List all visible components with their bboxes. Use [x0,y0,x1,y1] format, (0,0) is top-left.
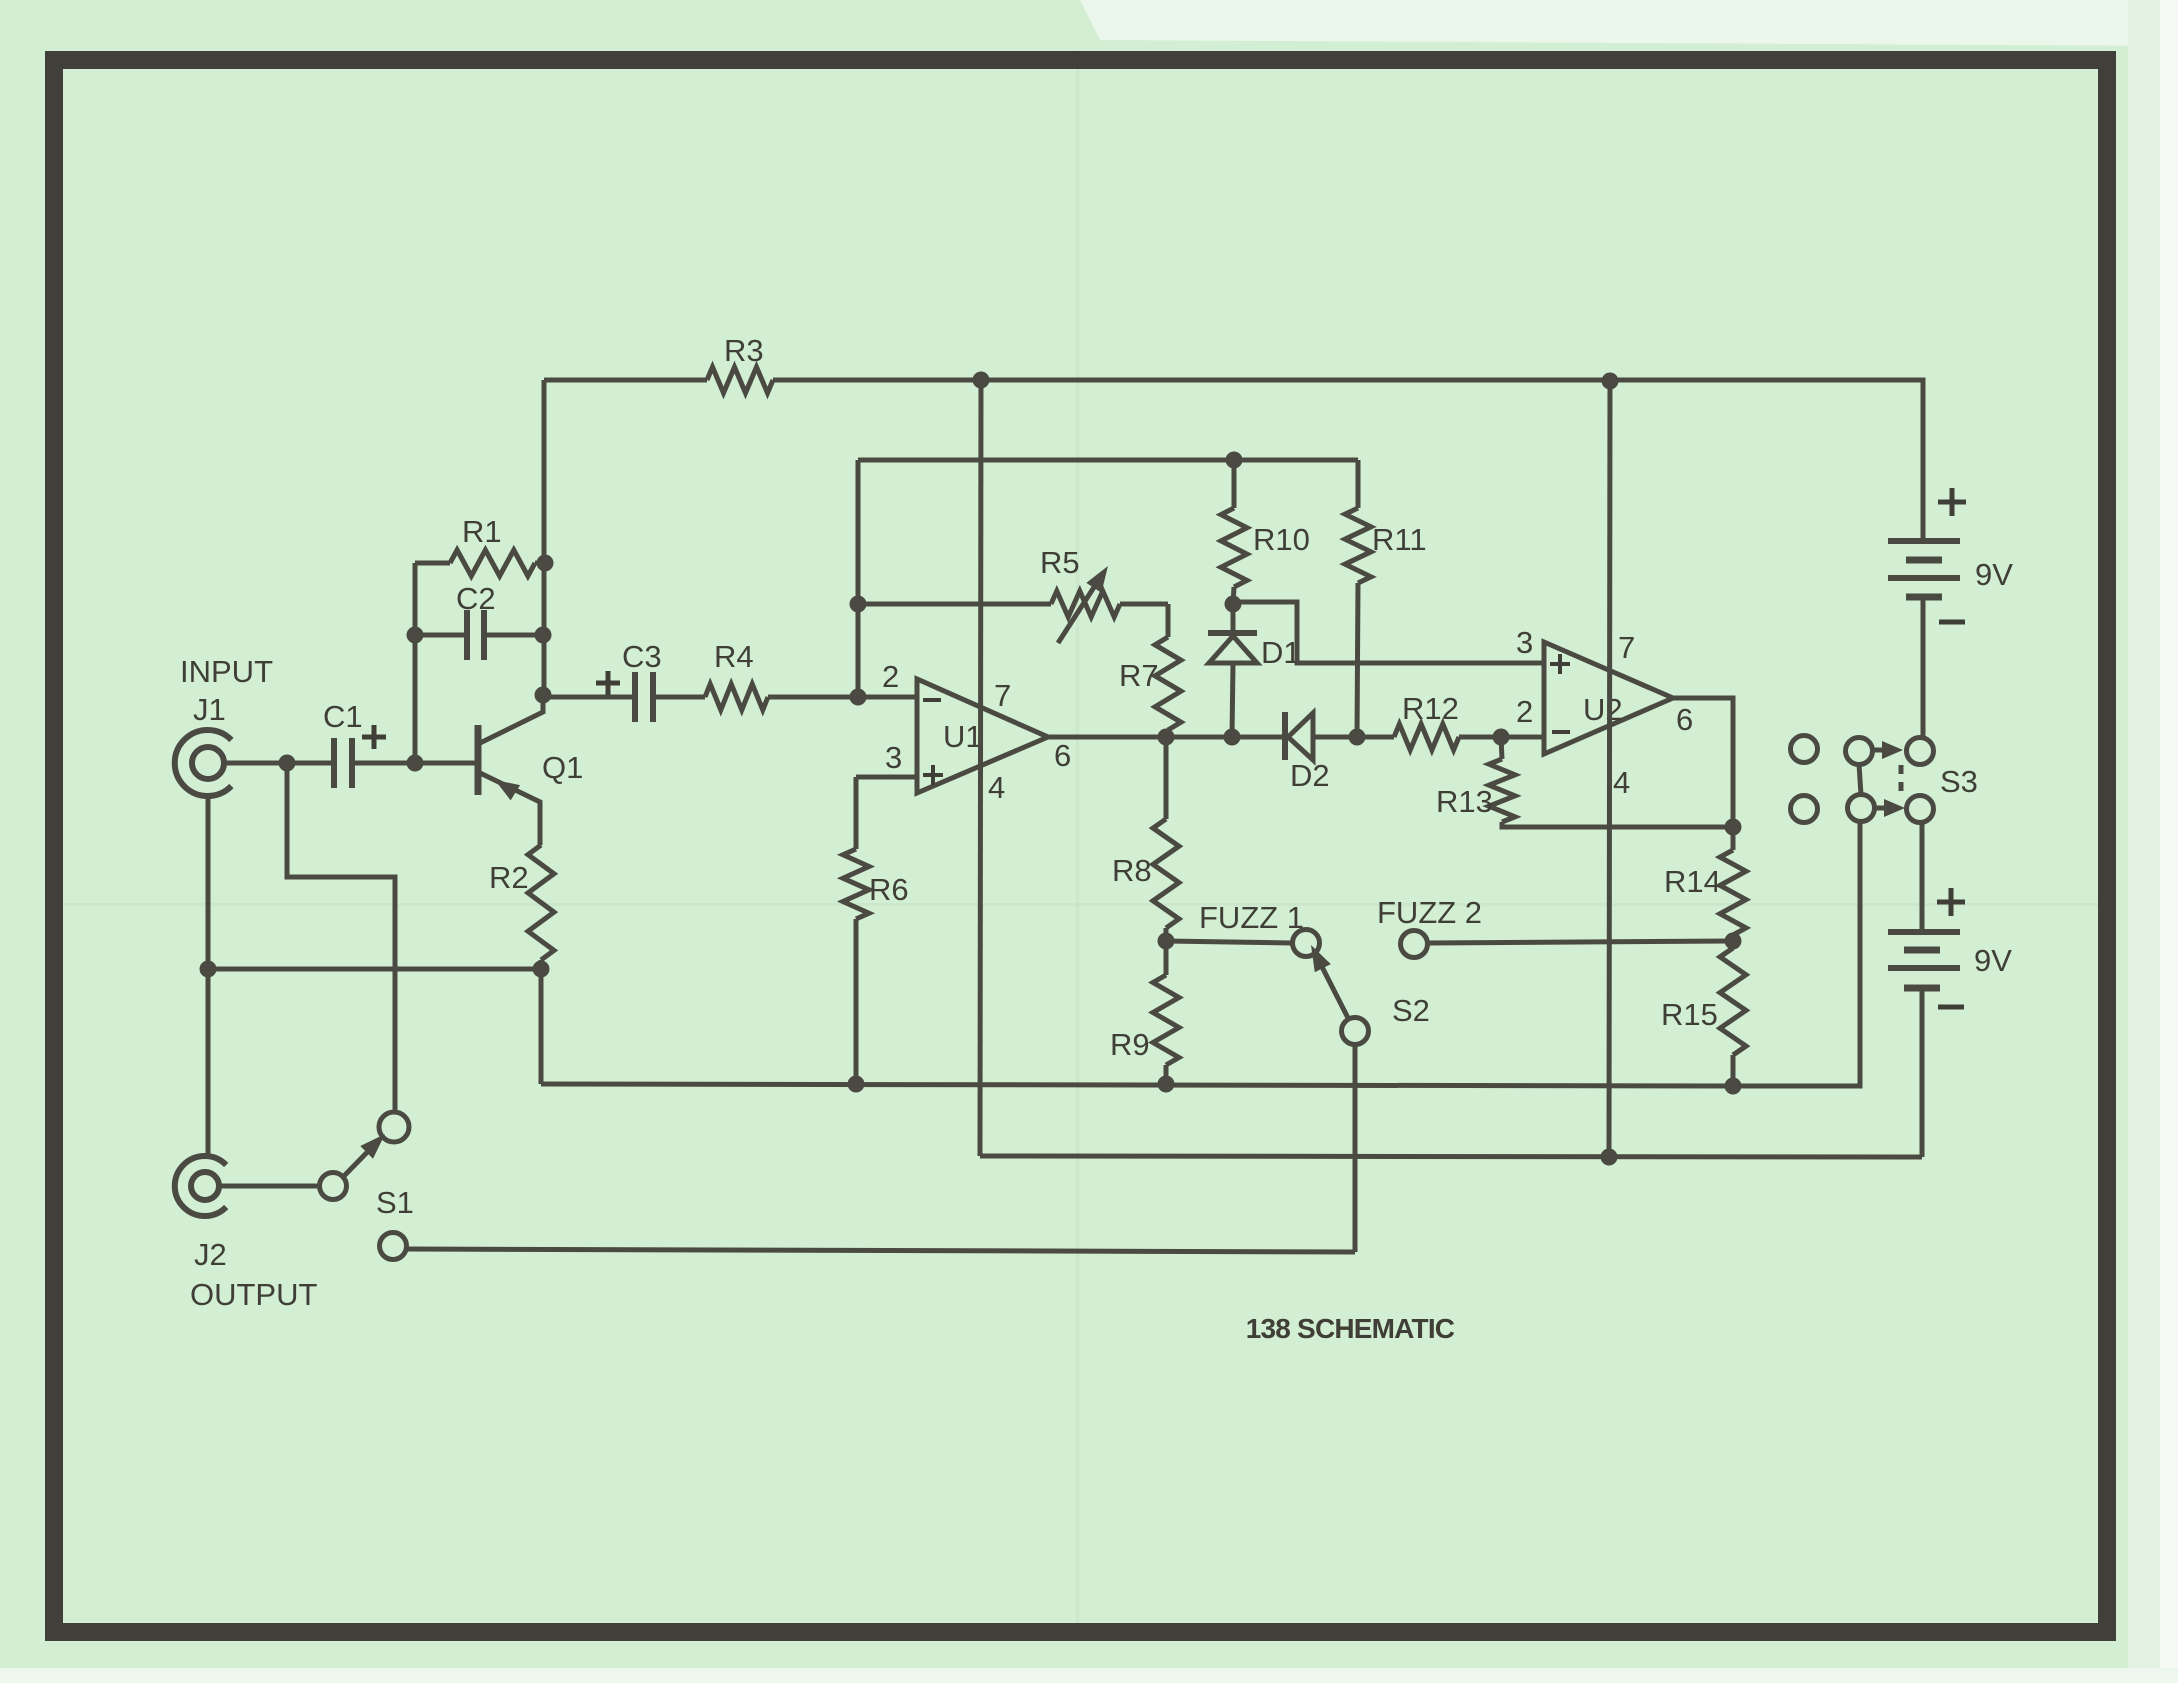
node: Q1 base / R1-C2 branch junction [407,755,424,772]
svg-text:4: 4 [1613,765,1630,800]
svg-text:9V: 9V [1974,943,2012,978]
wire: U1 pin7/pin4 vertical through symbol [980,380,981,1156]
wire: C1 node branch down/over to S1 throw [287,763,395,1111]
wire: left drop to R5/pin2 node [856,460,861,697]
battery B1 9V [1888,538,1960,544]
wire: R12 to U2 pin2 [1459,735,1544,740]
node: R8/R9/FUZZ1 junction [1158,933,1175,950]
svg-text:C1: C1 [323,699,363,734]
svg-text:R8: R8 [1112,853,1152,888]
svg-text:4: 4 [988,770,1005,805]
capacitor C2 [415,633,467,638]
svg-text:R14: R14 [1664,864,1721,899]
wire: C1 to Q1 base [352,761,478,766]
wire: battery 1 minus down to S3 [1921,597,1926,738]
svg-text:J2: J2 [194,1237,227,1272]
node: U1 pin2 junction [850,689,867,706]
node: R5 left junction [850,596,867,613]
diode D2 [1282,712,1288,760]
resistor R10 [1232,460,1237,508]
terminal FUZZ 2 [1401,931,1428,958]
svg-text:6: 6 [1054,738,1071,773]
svg-text:R10: R10 [1253,522,1310,557]
wire: V+ top rail from R1/C2 node to battery 1 [544,378,707,383]
switch S1 throw terminal (to input) [379,1112,409,1142]
svg-text:3: 3 [885,740,902,775]
transistor Q1 [475,725,482,795]
node: R13 top junction [1493,729,1510,746]
wire: S2 common down to S1 return [1353,1045,1358,1252]
wire: rail feeding R5, R10, R11 [858,458,1358,463]
svg-text:R2: R2 [489,860,529,895]
switch S2 common terminal [1342,1018,1369,1045]
potentiometer R5 [858,602,1051,607]
svg-text:C3: C3 [622,639,662,674]
node: R11 bottom junction [1349,729,1366,746]
svg-text:J1: J1 [193,692,226,727]
svg-text:Q1: Q1 [542,750,583,785]
svg-text:R3: R3 [724,333,764,368]
wire: V- rail up to battery 2 minus [1920,988,1925,1157]
svg-text:INPUT: INPUT [180,654,273,689]
battery B2 9V [1888,929,1960,935]
node: D1 junction on output [1224,729,1241,746]
svg-text:2: 2 [1516,694,1533,729]
resistor R14 [1731,827,1736,850]
wire: D2 to R12 [1313,735,1394,740]
wire: J1 sleeve down to J2 [206,796,211,1156]
svg-text:R13: R13 [1436,784,1493,819]
node: Q1 collector / C3 junction [535,687,552,704]
jack J2 (OUTPUT) [175,1156,226,1216]
wire: J2 to S1 pole [219,1184,319,1189]
switch S1 lower terminal [380,1233,407,1260]
wire: S3 lower right down to battery 2 plus [1920,822,1925,932]
wire: U2 pin7/pin4 vertical through symbol [1609,381,1610,1157]
svg-text:R11: R11 [1372,522,1427,557]
wire: top rail continues to battery 1 + [773,380,1923,541]
wire: S3 pole link [1859,764,1861,795]
wire: FUZZ1 stub [1166,941,1292,943]
svg-text:FUZZ 1: FUZZ 1 [1199,900,1304,935]
wire: ground rail [541,822,1860,1086]
op-amp U2 [1544,642,1673,754]
node: sleeve rail junction [200,961,217,978]
svg-text:U2: U2 [1583,692,1623,727]
node: C2 right junction [535,627,552,644]
svg-text:R5: R5 [1040,545,1080,580]
svg-text:OUTPUT: OUTPUT [190,1277,318,1312]
node: R9 bottom on ground rail [1158,1076,1175,1093]
wire: U2 output over and down to R14 [1673,698,1733,827]
node: R14/R15/FUZZ2 junction [1725,933,1742,950]
diode D1 [1231,604,1236,634]
resistor R8 [1164,737,1169,819]
wire: R2 node down to ground rail corner [539,969,544,1084]
resistor R13 [1501,737,1502,759]
node: R15 bottom on ground rail [1725,1078,1742,1095]
node: R10 top junction [1226,452,1243,469]
wire: D1 node over to U2 pin3 [1233,602,1544,663]
svg-text:138 SCHEMATIC: 138 SCHEMATIC [1246,1313,1455,1344]
resistor R12 [1394,724,1459,750]
svg-text:C2: C2 [456,581,496,616]
node: U1 pin7 rail junction [973,372,990,389]
svg-text:S1: S1 [376,1185,414,1220]
node: U2 pin4 on V- rail [1601,1149,1618,1166]
resistor R2 [528,845,554,960]
node: J1/C1/S1-branch junction [279,755,296,772]
resistor R4 [653,695,705,700]
svg-text:D2: D2 [1290,758,1330,793]
svg-text:R1: R1 [462,514,502,549]
terminal FUZZ 1 [1293,930,1320,957]
wire: R4 to U1 pin2 [768,695,917,700]
wire: FUZZ2 to R14/R15 node [1428,941,1733,943]
node: R10/D1 junction [1225,596,1242,613]
node: R1 right junction [537,555,554,572]
wire: vertical from R3 rail down to Q1 collector node [542,380,547,695]
resistor R7 [1166,604,1171,637]
resistor R11 [1356,460,1361,508]
capacitor C1 [331,738,337,788]
svg-text:R9: R9 [1110,1027,1150,1062]
svg-text:7: 7 [994,678,1011,713]
capacitor C3 [543,695,632,700]
svg-text:R7: R7 [1119,658,1159,693]
svg-text:R6: R6 [869,872,909,907]
svg-text:2: 2 [882,659,899,694]
switch S1 pole terminal [320,1173,347,1200]
node: R2 bottom junction [533,961,550,978]
node: U2 pin7 rail junction [1602,373,1619,390]
wire: branch up from base node to R1/C2 [413,563,418,763]
svg-text:R4: R4 [714,639,754,674]
wire: U1 pin3 from R6 [856,775,917,780]
switch S2 arm [1316,955,1348,1018]
svg-text:3: 3 [1516,625,1533,660]
node: R7/R8 junction on output [1158,729,1175,746]
svg-text:R15: R15 [1661,997,1718,1032]
resistor R3 [707,367,773,393]
node: C2 left junction [407,627,424,644]
node: R6 bottom on ground rail [848,1076,865,1093]
svg-text:7: 7 [1618,630,1635,665]
wire: V- rail (pin 4) [980,1156,1922,1157]
switch S3 terminals [1791,736,1818,763]
wire: J1 to C1 [224,761,331,766]
resistor R15 [1720,948,1746,1055]
switch S3 arrows [1873,748,1888,753]
svg-text:S2: S2 [1392,993,1430,1028]
resistor R9 [1153,975,1179,1065]
resistor R6 [854,777,859,849]
wire: sleeve rail across to R2 bottom [208,967,541,972]
wire: U1 output to D2 [1048,735,1285,740]
jack J1 (INPUT) [175,730,232,796]
wire: S1 lower terminal to S2 common [407,1249,1355,1252]
resistor R1 [415,561,450,566]
node: R13/R14/output junction [1725,819,1742,836]
svg-text:R12: R12 [1402,691,1459,726]
switch S1 arm [344,1139,380,1176]
svg-text:6: 6 [1676,702,1693,737]
op-amp U1 [917,679,1048,793]
svg-text:S3: S3 [1940,764,1978,799]
svg-text:9V: 9V [1975,557,2013,592]
svg-text:U1: U1 [943,719,983,754]
svg-text:FUZZ 2: FUZZ 2 [1377,895,1482,930]
